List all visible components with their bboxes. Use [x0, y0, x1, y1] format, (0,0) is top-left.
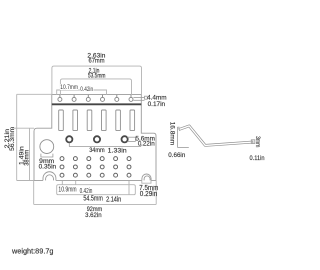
svg-text:38mm: 38mm	[23, 150, 30, 166]
svg-text:2.14in: 2.14in	[106, 196, 121, 203]
svg-text:0.29in: 0.29in	[140, 191, 158, 198]
bottom dimensions	[34, 181, 157, 205]
svg-text:54.5mm: 54.5mm	[83, 195, 103, 202]
grid of 18 small holes	[60, 157, 131, 177]
6 screw holes	[58, 95, 133, 102]
svg-text:weight:89.7g: weight:89.7g	[11, 249, 54, 256]
9mm label	[41, 154, 53, 157]
6 string slots	[59, 110, 135, 131]
svg-text:56.3mm: 56.3mm	[9, 127, 16, 151]
svg-text:16.8mm: 16.8mm	[169, 122, 176, 146]
svg-text:67mm: 67mm	[89, 58, 105, 65]
7.5mm bracket	[142, 181, 151, 184]
svg-text:0.42in: 0.42in	[80, 86, 93, 93]
4.4mm leader	[133, 96, 147, 100]
bridge plate outline (top view)	[34, 95, 156, 181]
svg-text:10.9mm: 10.9mm	[58, 186, 76, 193]
svg-text:34mm: 34mm	[89, 147, 105, 154]
svg-text:3.62in: 3.62in	[85, 212, 102, 219]
16.8mm bracket	[177, 127, 188, 147]
svg-text:0.17in: 0.17in	[148, 101, 166, 108]
strip bottom thick line	[52, 103, 142, 105]
svg-text:0.11in: 0.11in	[250, 155, 265, 162]
3mm bracket	[251, 140, 255, 144]
svg-text:53.5mm: 53.5mm	[88, 73, 106, 80]
svg-text:10.7mm: 10.7mm	[60, 84, 78, 91]
svg-text:3mm: 3mm	[254, 136, 261, 147]
3 pivot rings	[66, 136, 127, 142]
34mm leader	[69, 142, 141, 147]
5.6mm leader	[127, 137, 135, 141]
svg-text:0.42in: 0.42in	[80, 188, 93, 195]
svg-text:1.33in: 1.33in	[108, 147, 127, 154]
svg-text:0.35in: 0.35in	[39, 163, 57, 170]
svg-text:0.66in: 0.66in	[168, 152, 185, 159]
left vertical dimensions	[12, 94, 52, 180]
9mm hole	[40, 140, 54, 154]
